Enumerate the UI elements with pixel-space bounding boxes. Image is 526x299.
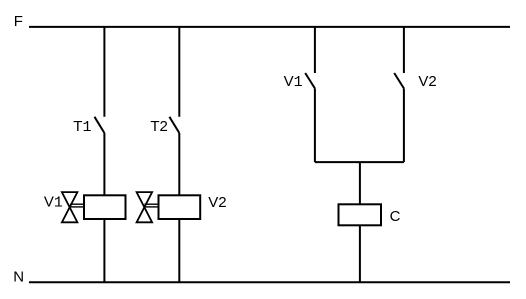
wire column2 middle [178, 133, 180, 195]
svg-text:C: C [390, 208, 401, 225]
valve V2 stem (double line) [144, 203, 158, 205]
svg-text:V1: V1 [44, 193, 63, 211]
contact V1 blade [305, 73, 315, 88]
wire coil C to rail N [359, 225, 361, 282]
wire right-left branch lower [314, 88, 316, 162]
coil V2 box [159, 195, 201, 219]
coil V1 box [84, 195, 126, 219]
valve symbol V1 (bowtie) [62, 192, 78, 222]
wire column2 lower [178, 219, 180, 282]
svg-text:N: N [13, 268, 24, 285]
contact T2 blade [169, 117, 179, 133]
contact T1 blade [95, 117, 105, 133]
svg-text:V2: V2 [208, 194, 226, 211]
wire to coil C [359, 162, 361, 204]
wire right-right branch lower [403, 88, 405, 162]
svg-text:V2: V2 [418, 73, 436, 90]
wire joining branches [315, 161, 404, 163]
valve symbol V2 (bowtie) [137, 192, 153, 222]
svg-text:V1: V1 [284, 73, 303, 91]
wire rail N (bottom horizontal) [29, 281, 510, 283]
svg-text:F: F [14, 13, 23, 30]
wire right-left branch upper [314, 27, 316, 73]
wire rail F (top horizontal) [29, 26, 510, 28]
contact V2 blade [394, 73, 404, 88]
wire column2 upper [178, 27, 180, 117]
wire column1 upper [103, 27, 105, 117]
coil C box [339, 204, 382, 225]
wire column1 middle [103, 133, 105, 195]
wire column1 lower [103, 219, 105, 282]
wire right-right branch upper [403, 27, 405, 73]
svg-text:T2: T2 [150, 118, 168, 135]
svg-text:T1: T1 [73, 118, 91, 136]
valve V1 stem (double line) [70, 203, 84, 205]
